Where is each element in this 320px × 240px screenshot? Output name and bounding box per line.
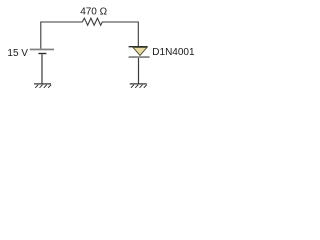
svg-text:470 Ω: 470 Ω [80,6,107,17]
svg-text:D1N4001: D1N4001 [152,47,195,58]
svg-text:15 V: 15 V [7,48,28,59]
